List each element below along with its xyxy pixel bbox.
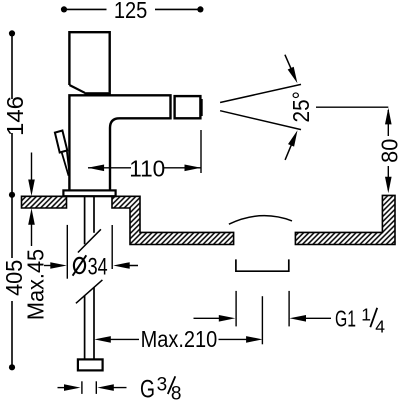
svg-text:Max.45: Max.45 bbox=[22, 249, 48, 320]
arrow 110 right bbox=[185, 165, 202, 172]
extension line drain left bbox=[235, 291, 237, 327]
dot left 125 bbox=[61, 6, 67, 12]
svg-text:4: 4 bbox=[375, 316, 385, 336]
extension line drain right bbox=[288, 291, 290, 327]
dot bottom 405 bbox=[9, 364, 15, 370]
break line lower bbox=[76, 280, 103, 303]
dia34 leader right bbox=[120, 265, 138, 267]
svg-text:G1: G1 bbox=[335, 306, 356, 332]
arrow upper cone bbox=[285, 55, 294, 76]
hatched lower right band + rear wall bbox=[295, 195, 395, 244]
base plate bbox=[63, 190, 115, 196]
svg-text:8: 8 bbox=[171, 383, 182, 400]
dimension G1 1/4 bbox=[194, 317, 229, 319]
pipe end cap bbox=[78, 359, 103, 370]
label G3/8 bbox=[140, 374, 181, 400]
spout end cap bbox=[175, 96, 201, 118]
dot right 125 bbox=[197, 6, 203, 12]
supply pipe upper bbox=[85, 197, 94, 245]
svg-text:146: 146 bbox=[2, 96, 28, 136]
arrow 110 left bbox=[88, 165, 105, 172]
dia34 leader left bbox=[44, 265, 60, 267]
extension line spout outlet bbox=[200, 130, 202, 173]
svg-text:25°: 25° bbox=[288, 91, 314, 122]
25 degree cone upper line bbox=[220, 84, 301, 102]
lever stem bbox=[62, 151, 69, 176]
extension line drain center bbox=[261, 296, 263, 344]
dot deck 146/405 bbox=[9, 192, 15, 198]
outlet lip bbox=[201, 99, 203, 116]
svg-text:3: 3 bbox=[157, 374, 168, 395]
dimension G3/8 bbox=[58, 387, 74, 389]
svg-text:110: 110 bbox=[129, 155, 165, 181]
svg-text:125: 125 bbox=[114, 0, 148, 23]
hatched deck left slab bbox=[22, 196, 67, 208]
reference line spout height bbox=[316, 106, 388, 108]
arrow lower cone bbox=[285, 140, 293, 160]
handle bottom cap bar bbox=[84, 92, 111, 96]
svg-text:1: 1 bbox=[361, 304, 371, 324]
hatched deck right + step + lower left band bbox=[112, 196, 234, 244]
svg-text:34: 34 bbox=[88, 253, 108, 280]
svg-text:80: 80 bbox=[377, 139, 400, 163]
label G1 1/4 bbox=[335, 304, 385, 336]
dimension 146 left line bbox=[11, 33, 13, 194]
faucet body and spout bbox=[69, 95, 170, 190]
lever knob bbox=[55, 131, 67, 153]
dimension 405 left line bbox=[11, 197, 13, 368]
25 degree cone lower line bbox=[220, 111, 301, 130]
dia34 extension line left bbox=[66, 225, 68, 279]
break line upper bbox=[78, 229, 101, 252]
drain U fitting bbox=[236, 259, 289, 271]
dimension 80 line bbox=[387, 110, 389, 190]
arrow 80 down bbox=[385, 177, 392, 194]
dimension Max.45 upper arrow bbox=[31, 153, 33, 183]
svg-text:Max.210: Max.210 bbox=[141, 326, 218, 352]
dia34 extension line right bbox=[111, 225, 113, 269]
arrow 80 up bbox=[385, 108, 392, 125]
handle diagonal cut bbox=[69, 85, 84, 93]
label dia34 bbox=[74, 258, 85, 273]
dimension 110 line bbox=[88, 167, 201, 169]
dot top 146 bbox=[9, 30, 15, 36]
dimension 125 top line bbox=[64, 8, 200, 10]
handle bbox=[69, 32, 109, 92]
dimension Max.210 bbox=[94, 336, 111, 343]
svg-text:G: G bbox=[140, 376, 155, 400]
dimension Max.45 lower arrow bbox=[31, 222, 33, 246]
bowl arc bbox=[229, 216, 292, 225]
supply pipe lower bbox=[85, 287, 94, 359]
